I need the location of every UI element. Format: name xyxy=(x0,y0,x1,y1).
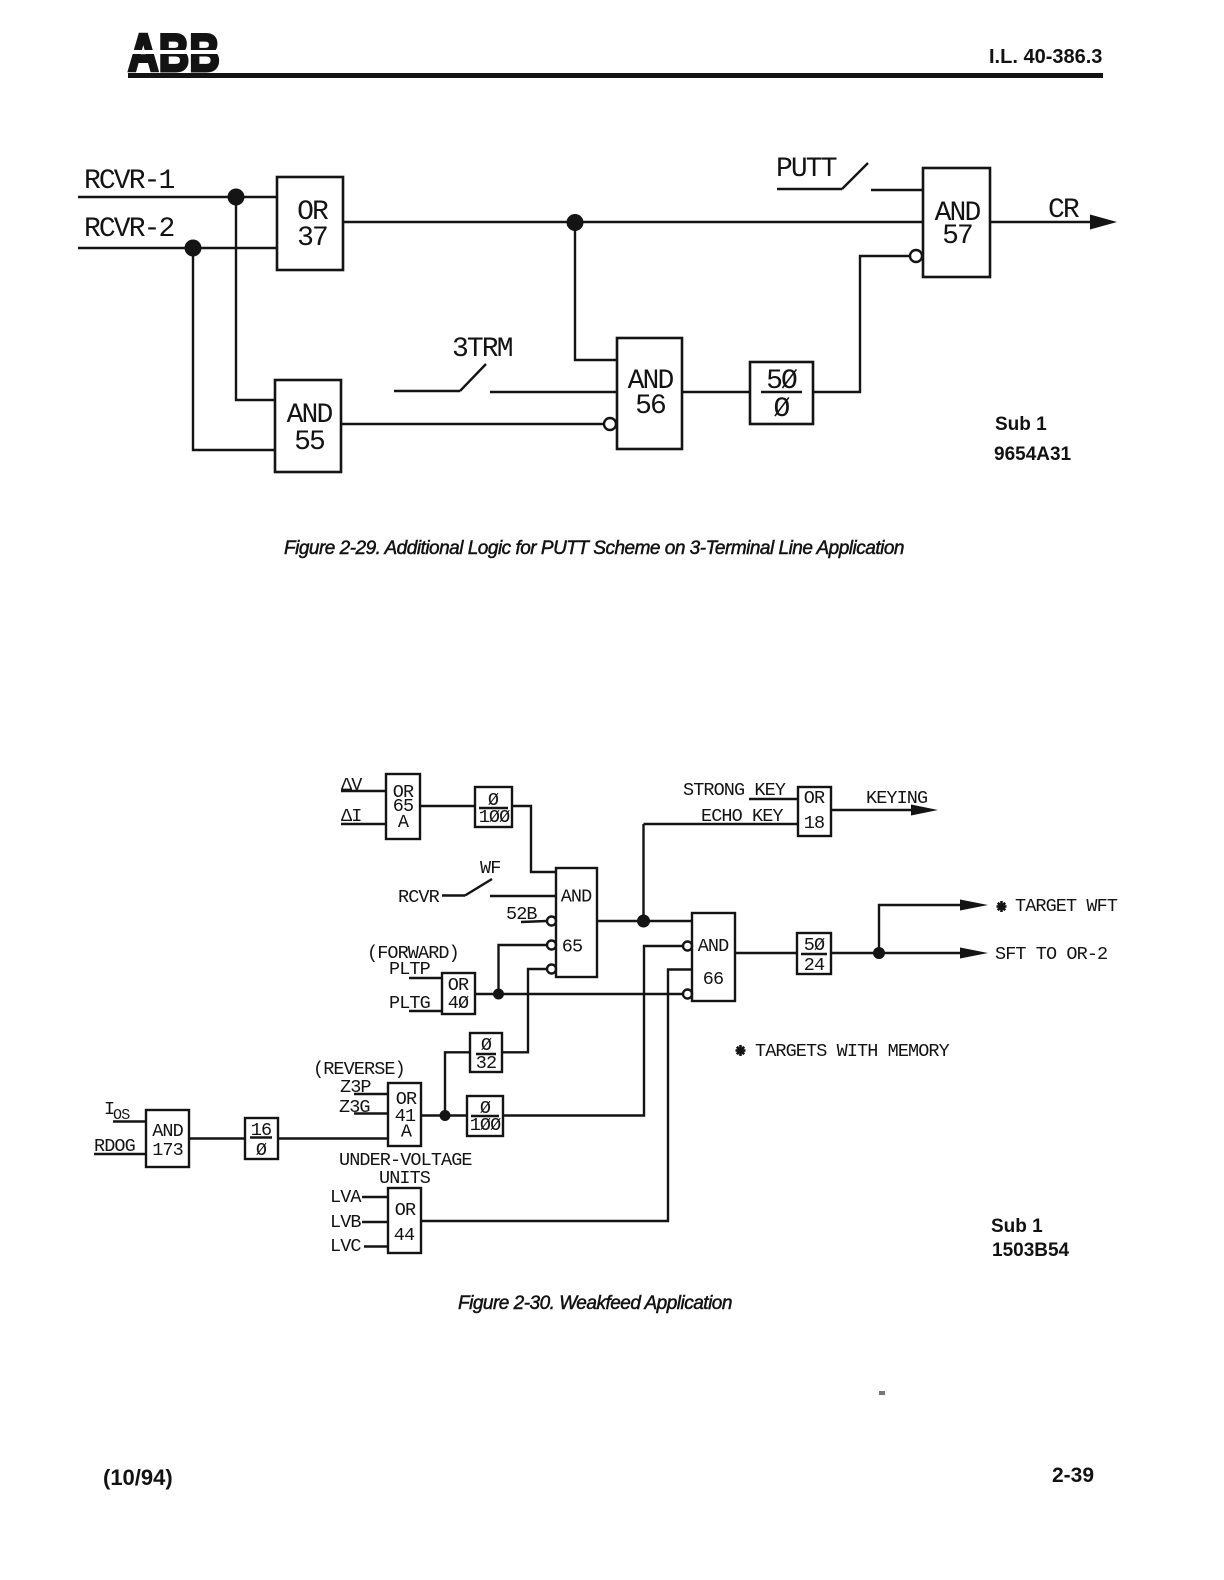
junction on RCVR-2 xyxy=(185,240,202,257)
inverted input bubble AND65 in1 xyxy=(547,917,556,926)
svg-text:AND: AND xyxy=(561,887,592,908)
svg-text:1ØØ: 1ØØ xyxy=(479,807,510,828)
gate OR 37 xyxy=(277,177,343,270)
wire branch to 0/32 xyxy=(445,1052,470,1115)
svg-text:3TRM: 3TRM xyxy=(452,334,513,365)
wire I-OS input xyxy=(113,1120,146,1122)
svg-text:32: 32 xyxy=(476,1053,496,1074)
junction on OR41A output xyxy=(440,1110,451,1121)
svg-text:LVA: LVA xyxy=(330,1187,362,1208)
switch PUTT contact xyxy=(777,163,923,190)
wire OR44 branch to AND66 in3 xyxy=(421,970,692,1222)
wire Z3P input xyxy=(354,1093,388,1095)
svg-text:TARGETS WITH MEMORY: TARGETS WITH MEMORY xyxy=(755,1041,950,1062)
gate AND 56 xyxy=(617,338,682,449)
wire LVB input xyxy=(362,1221,388,1223)
gate OR 44 xyxy=(388,1188,421,1253)
svg-text:A: A xyxy=(398,812,410,833)
note UNDER-VOLTAGE UNITS xyxy=(339,1150,472,1189)
gate AND 57 xyxy=(923,168,990,277)
inverted input bubble AND66 in2 xyxy=(683,942,692,951)
wire AND66 output to 50/24 xyxy=(735,952,797,954)
timer 0/100 upper xyxy=(475,787,512,828)
wire 0/100 to AND65 top input xyxy=(512,806,556,872)
wire PLTG input xyxy=(409,1010,442,1012)
svg-text:18: 18 xyxy=(804,813,824,834)
gate AND 55 xyxy=(275,380,341,472)
svg-text:4Ø: 4Ø xyxy=(448,993,469,1014)
wire branch to TARGET WFT xyxy=(879,905,962,953)
wire RCVR-1 input xyxy=(78,196,277,198)
svg-text:CR: CR xyxy=(1048,195,1080,226)
footer right xyxy=(1052,1464,1094,1488)
inverted input bubble AND65 in2 xyxy=(547,941,556,950)
wire 52B input xyxy=(521,921,547,922)
wire OR65A output to 0/100 xyxy=(420,805,475,807)
wire RCVR-2 input xyxy=(78,247,277,249)
svg-text:37: 37 xyxy=(297,223,327,254)
caption Figure 2-30 xyxy=(458,1293,732,1315)
wire branch to ECHO KEY line xyxy=(642,824,644,921)
svg-text:UNITS: UNITS xyxy=(379,1168,431,1189)
svg-text:Ø: Ø xyxy=(774,394,790,425)
inverted input bubble AND65 in3 xyxy=(547,965,556,974)
gate OR 41 A xyxy=(388,1083,421,1146)
star TARGET WFT xyxy=(997,901,1007,912)
gate OR 65 A xyxy=(386,774,420,839)
svg-text:AND: AND xyxy=(698,936,729,957)
wire AND65 output to AND66 xyxy=(597,920,692,922)
node I-OS label xyxy=(104,1099,130,1124)
junction on AND65 output xyxy=(637,915,650,928)
wire LVA input xyxy=(362,1196,388,1198)
gate OR 18 xyxy=(798,787,831,836)
arrowhead CR xyxy=(1090,215,1117,230)
wire AND56 output to 50/0 xyxy=(682,391,750,393)
svg-text:TARGET WFT: TARGET WFT xyxy=(1015,896,1118,917)
inverted input bubble AND66 in4 xyxy=(683,990,692,999)
svg-text:AND: AND xyxy=(152,1121,183,1142)
switch 3TRM contact xyxy=(394,364,617,392)
wire RCVR-2 branch to AND55 xyxy=(193,248,275,450)
timer 50/24 xyxy=(797,933,831,976)
arrowhead SFT TO OR-2 xyxy=(960,948,988,959)
footer left xyxy=(103,1465,173,1491)
svg-text:RCVR-2: RCVR-2 xyxy=(84,214,174,245)
wire KEYING output xyxy=(831,809,915,811)
wire 50/0 output to AND57 inverted input xyxy=(813,256,910,392)
wire RCVR-1 branch to AND55 xyxy=(236,197,275,400)
inverted input bubble AND57 xyxy=(910,250,922,262)
header doc number xyxy=(989,46,1102,69)
wire CR output xyxy=(990,221,1094,223)
wire OR37 branch to AND56 xyxy=(575,222,617,360)
junction on OR40 output xyxy=(493,989,504,1000)
wire 0/100 lower output to AND66 in2 xyxy=(503,946,683,1116)
svg-text:STRONG KEY: STRONG KEY xyxy=(683,780,786,801)
svg-text:ECHO KEY: ECHO KEY xyxy=(701,806,783,827)
wire Z3G input xyxy=(354,1112,388,1114)
wire delta-V input xyxy=(341,790,386,792)
svg-text:55: 55 xyxy=(294,427,325,458)
svg-text:24: 24 xyxy=(804,955,825,976)
svg-text:PUTT: PUTT xyxy=(776,154,837,185)
sub note 2 xyxy=(991,1216,1043,1238)
caption Figure 2-29 xyxy=(284,538,904,560)
wire delta-I input xyxy=(341,823,386,825)
svg-text:KEYING: KEYING xyxy=(866,788,927,809)
wire AND173 output to 16/0 xyxy=(189,1137,245,1139)
svg-text:A: A xyxy=(401,1122,413,1143)
svg-text:44: 44 xyxy=(394,1225,415,1246)
star TARGETS WITH MEMORY xyxy=(736,1045,746,1056)
svg-text:ΔV: ΔV xyxy=(341,775,362,796)
timer 16/0 xyxy=(245,1118,278,1161)
wire AND55 output to AND56 inverted input xyxy=(341,423,604,425)
wire OR41A output to 0/100 lower xyxy=(421,1114,467,1116)
junction on 50/24 output xyxy=(873,947,885,959)
wire OR40 branch to AND65 in2 xyxy=(499,945,548,994)
junction on RCVR-1 xyxy=(228,189,245,206)
stray mark xyxy=(879,1391,885,1395)
inverted input bubble AND56 xyxy=(604,418,616,430)
svg-text:66: 66 xyxy=(703,969,723,990)
svg-text:Z3G: Z3G xyxy=(339,1097,370,1118)
junction on OR37 output xyxy=(567,214,584,231)
svg-text:RCVR: RCVR xyxy=(398,887,440,908)
wire OR37 output to AND57 xyxy=(343,221,923,223)
svg-text:OR: OR xyxy=(804,788,825,809)
gate AND 66 xyxy=(692,913,735,1001)
timer 0/100 lower xyxy=(467,1096,503,1136)
wire 50/24 output xyxy=(831,952,962,954)
wire 0/32 output to AND65 in3 xyxy=(502,969,547,1052)
svg-text:LVB: LVB xyxy=(330,1212,361,1233)
gate AND 173 xyxy=(146,1110,189,1167)
svg-text:65: 65 xyxy=(562,937,582,958)
timer 0/32 xyxy=(470,1033,502,1074)
wire 16/0 output to OR41A xyxy=(278,1137,388,1139)
wire LVC input xyxy=(364,1245,388,1247)
wire STRONG KEY xyxy=(749,798,798,800)
wire OR40 output to AND66 in4 xyxy=(474,993,683,995)
svg-text:OR: OR xyxy=(395,1200,416,1221)
svg-text:173: 173 xyxy=(152,1140,183,1161)
svg-text:57: 57 xyxy=(942,221,972,252)
sub note 1 xyxy=(995,414,1047,436)
wire RDOG input xyxy=(94,1153,146,1155)
gate OR 40 xyxy=(442,973,475,1014)
gate AND 65 xyxy=(556,868,597,977)
wire ECHO KEY xyxy=(644,823,799,825)
wire PLTP input xyxy=(409,977,442,979)
svg-text:1ØØ: 1ØØ xyxy=(470,1115,501,1136)
svg-text:SFT TO OR-2: SFT TO OR-2 xyxy=(995,944,1107,965)
arrowhead KEYING xyxy=(911,805,938,816)
svg-text:Ø: Ø xyxy=(256,1140,267,1161)
svg-text:RCVR-1: RCVR-1 xyxy=(84,166,175,197)
svg-text:WF: WF xyxy=(480,858,500,879)
arrowhead TARGET WFT xyxy=(960,900,988,911)
svg-text:LVC: LVC xyxy=(330,1236,361,1257)
timer 50/0 xyxy=(750,362,813,425)
svg-text:56: 56 xyxy=(635,391,665,422)
switch WF contact xyxy=(442,879,556,896)
header rule xyxy=(128,73,1103,78)
